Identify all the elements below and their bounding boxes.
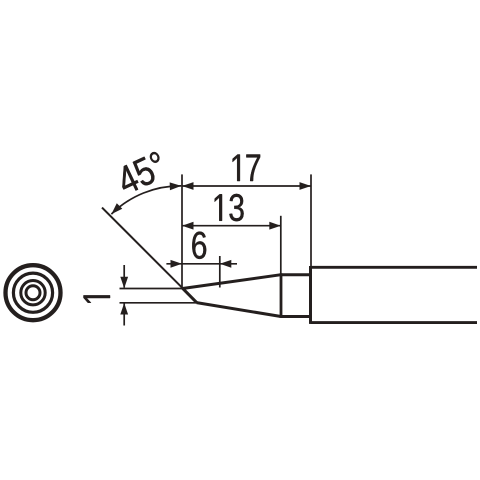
label 13 <box>215 194 244 221</box>
left extension line (tip) <box>181 174 183 288</box>
cone top edge <box>183 275 282 289</box>
cone bottom edge <box>197 303 281 317</box>
cylinder top edge <box>281 273 311 276</box>
1-dim lower arrow line <box>123 304 125 326</box>
label 17 <box>233 155 261 182</box>
17 right extension line <box>310 174 312 266</box>
arc arrow at extension line (pointing right) <box>170 182 182 190</box>
barrel bottom edge <box>311 321 478 324</box>
barrel front edge <box>309 266 312 324</box>
end view circle 3 <box>21 281 45 305</box>
1-dim upper arrow line <box>123 265 125 288</box>
label 45 <box>122 152 159 191</box>
dimension line 13 <box>182 225 281 227</box>
arc arrow at diagonal (pointing down-left) <box>109 203 123 217</box>
label 1r <box>84 295 111 302</box>
tip bevel edge (object line) <box>182 288 197 303</box>
end view circle 2 <box>13 273 52 312</box>
label 6 <box>192 232 206 259</box>
arrow 6 right (outside, pointing left) <box>220 260 232 268</box>
end view inner circle <box>26 286 40 300</box>
arrow 17 right <box>300 182 312 190</box>
cylinder bottom edge <box>281 315 311 318</box>
dimension line 6 <box>166 263 237 265</box>
1-dim lower extension line <box>120 302 199 304</box>
barrel top edge <box>311 266 478 269</box>
13 right extension line <box>280 216 282 274</box>
45-degree reference diagonal line <box>102 208 183 289</box>
dimension line 17 <box>182 185 311 187</box>
6 right extension line <box>219 256 221 288</box>
arrow 17 left <box>182 182 194 190</box>
1-dim upper extension line <box>120 288 185 290</box>
arrow 1 upper (pointing down) <box>120 277 128 289</box>
cone/cylinder junction line <box>280 273 283 318</box>
arrow 13 right <box>269 222 281 230</box>
arrow 1 lower (pointing up) <box>120 303 128 315</box>
45-degree angle arc <box>111 186 181 214</box>
arrow 6 left (outside, pointing right) <box>171 260 183 268</box>
arrow 13 left <box>182 222 194 230</box>
end view outer circle <box>6 265 61 320</box>
